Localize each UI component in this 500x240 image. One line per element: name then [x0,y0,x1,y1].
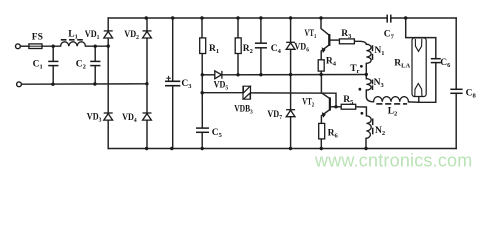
svg-text:L2: L2 [388,107,398,118]
wire VT2 collector to midpoint [321,75,329,99]
wire R4 to midpoint [320,71,322,75]
winding N3 [366,79,371,90]
wire top rail left of C7 [108,17,387,19]
inductor L1 [61,42,86,46]
wire AC2 line bottom input [22,83,147,85]
svg-text:C8: C8 [466,88,477,99]
svg-text:VD4: VD4 [122,113,137,124]
resistor R1 [200,38,206,54]
lamp bottom filament [415,84,422,97]
svg-text:RLA: RLA [394,58,410,69]
wire VT2 base to R5 [331,106,341,108]
wire R3 to N1 top [354,41,366,44]
junction dots AC1 line [52,44,110,48]
diac VDB3 [243,86,251,100]
capacitor C1 [48,61,58,65]
wire bottom rail [108,148,456,150]
wire VT1 collector [321,18,329,35]
svg-text:C1: C1 [33,60,43,71]
lamp tube [412,38,426,97]
capacitor C7 [387,15,391,23]
transistor VT1 [322,34,330,53]
svg-text:L1: L1 [68,30,78,41]
svg-text:Tr: Tr [350,64,359,75]
junction dot VT2 base node [334,105,337,108]
transistor VT2 [322,98,331,118]
diode VD5 [215,71,222,79]
svg-text:VT1: VT1 [305,29,317,40]
resistor R3 [339,39,354,44]
wire R2 branch [237,18,239,38]
capacitor C3 electrolytic [165,81,180,85]
junction dots top rail [145,16,408,19]
svg-text:VD3: VD3 [87,113,102,124]
wire C6 bottom lead [435,63,437,102]
diode VD1 [104,31,113,38]
wire R6 to bottom rail [320,139,322,149]
wire C6 top lead / lamp top line [406,18,436,58]
wire lamp top pin [418,38,420,39]
wire N2 bottom to rail [365,138,367,148]
wire right side vertical (C8 branch) [455,18,457,89]
svg-text:www.cntronics.com: www.cntronics.com [314,151,472,171]
inductor L2 [374,97,409,102]
wire VT1 emitter to R4 [321,45,328,59]
wire C1 branch [52,46,54,61]
svg-text:N3: N3 [374,78,385,89]
node N2 polarity dot [361,112,364,115]
svg-text:R4: R4 [326,57,337,68]
svg-text:VT2: VT2 [302,97,314,108]
junction dots bottom rail [145,147,368,150]
winding N2 [366,116,371,138]
junction dot diac line at C5 node [201,91,204,94]
wire AC1 line from fuse to bridge [21,45,29,47]
svg-text:C4: C4 [271,44,282,55]
resistor R2 [235,38,241,54]
svg-text:C2: C2 [76,60,86,71]
wire VD6 VD7 line [290,18,292,149]
svg-text:R6: R6 [328,129,339,140]
capacitor C6 [431,59,441,63]
lamp top filament [415,39,422,52]
junction dots AC2 line [51,82,148,86]
terminal input top [16,44,21,49]
diode VD2 [143,31,152,38]
node N1 polarity dot [360,65,363,68]
diode VD3 [104,113,113,120]
capacitor C4 [255,43,267,48]
resistor R4 [318,60,324,71]
svg-text:N2: N2 [375,126,385,137]
winding N1 [366,44,371,63]
svg-text:C7: C7 [384,30,395,41]
fuse FS [29,44,42,49]
junction dots midpoint line [201,73,368,77]
wire VT1 base to R3 [330,39,339,41]
diode VD6 [286,42,295,49]
terminal input bottom [17,82,22,87]
svg-text:R1: R1 [209,44,219,55]
capacitor C2 [90,61,100,65]
diode VD7 [286,110,295,117]
svg-text:VD5: VD5 [214,81,229,92]
wire lamp bottom pin [418,97,420,103]
resistor R5 [341,104,356,109]
wire R5 to N2 top [356,107,367,116]
svg-text:VD2: VD2 [124,30,139,41]
svg-text:VD7: VD7 [267,110,282,121]
wire bridge left line VD1/VD3 [107,18,109,149]
svg-text:FS: FS [32,32,43,42]
wire R1 C5 line [201,18,203,38]
wire diac trigger line to VT2 base [202,92,243,94]
svg-text:R3: R3 [341,29,352,40]
svg-text:C3: C3 [181,79,192,90]
wire lamp bottom line to C6 bottom [419,101,436,103]
svg-text:VDB3: VDB3 [234,104,253,115]
wire VT2 emitter to R6 [321,110,329,123]
svg-text:VD1: VD1 [85,30,100,41]
node N3 polarity dot [359,88,362,91]
wire bridge right line VD2/VD4 [146,18,148,149]
svg-text:C5: C5 [212,128,223,139]
wire C2 branch [94,46,96,61]
svg-text:C6: C6 [440,58,451,69]
diode VD4 [143,113,152,120]
svg-text:R5: R5 [343,95,354,106]
wire C4 branch [260,18,262,43]
wire L2 right to lamp bottom line [409,101,419,103]
wire N1 bottom to midpoint junction [365,63,367,78]
wire C3 branch [172,18,174,81]
wire midpoint line with VD5 [202,74,215,76]
capacitor C8 [450,89,462,93]
wire N3 bottom to L2 [366,90,373,102]
svg-text:VD6: VD6 [294,43,309,54]
svg-text:R2: R2 [243,44,253,55]
wire top rail right of C7 [391,17,456,19]
svg-text:N1: N1 [374,46,384,57]
resistor R6 [319,123,325,138]
capacitor C5 [196,128,209,132]
